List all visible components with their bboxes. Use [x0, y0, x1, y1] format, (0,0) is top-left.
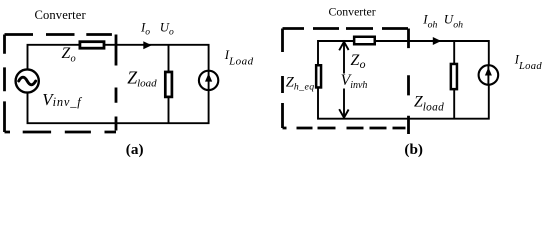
resistor Z_load (a) — [165, 72, 172, 97]
svg-text:Zo: Zo — [62, 45, 76, 64]
svg-text:Uoh: Uoh — [444, 12, 463, 31]
svg-text:Io: Io — [140, 21, 150, 38]
converter dashed box (b) : left edge — [281, 29, 284, 129]
resistor Z_o (b) — [354, 37, 375, 45]
svg-text:Vinv_f: Vinv_f — [42, 90, 82, 109]
svg-text:Zh_eq: Zh_eq — [286, 75, 315, 93]
svg-text:Ioh: Ioh — [422, 12, 437, 31]
svg-text:Vinvh: Vinvh — [341, 72, 368, 91]
converter dashed box (b) : bottom edge — [283, 127, 409, 130]
converter dashed box (b) : top edge — [283, 27, 409, 30]
svg-text:(a): (a) — [126, 141, 144, 158]
svg-text:Converter: Converter — [329, 5, 376, 19]
resistor Z_o (a) — [80, 42, 104, 49]
converter dashed box (a) : top edge — [5, 33, 117, 36]
current direction arrow I_o on top wire (a) — [143, 41, 151, 49]
converter dashed box (b) : right edge — [407, 29, 410, 135]
converter dashed box (a) : left edge — [3, 35, 6, 133]
current direction arrow I_oh on top wire (b) — [433, 37, 441, 45]
current source I_Load (a) — [199, 71, 218, 90]
svg-text:ILoad: ILoad — [224, 48, 254, 68]
converter dashed box (a) : bottom edge — [5, 131, 117, 134]
svg-text:(b): (b) — [404, 141, 423, 158]
ac source V_inv_f — [16, 69, 39, 92]
current source I_Load (b) — [479, 65, 499, 85]
wire : circuit (a) outer loop — [28, 45, 209, 123]
converter dashed box (a) : right edge — [115, 35, 118, 133]
svg-text:ILoad: ILoad — [514, 53, 543, 73]
svg-text:Zload: Zload — [127, 67, 157, 89]
svg-text:Converter: Converter — [35, 8, 87, 22]
svg-text:Uo: Uo — [160, 21, 174, 38]
resistor Z_load (b) — [451, 64, 457, 89]
wire : circuit (b) outer loop — [318, 41, 489, 119]
wire : Z_load branch (b) — [453, 41, 455, 119]
resistor Z_h_eq — [316, 65, 321, 87]
svg-text:Zload: Zload — [414, 93, 444, 113]
wire : Z_load branch (a) — [168, 45, 170, 123]
voltage arrow V_invh (double-headed) — [339, 42, 348, 118]
svg-text:Zo: Zo — [351, 52, 366, 71]
